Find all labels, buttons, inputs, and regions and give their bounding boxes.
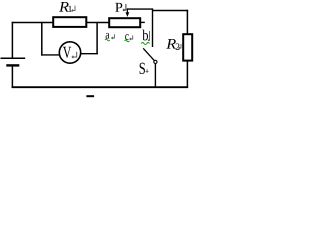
wire switch branch upper vertical bbox=[152, 9, 154, 48]
pilcrow mark after P bbox=[123, 4, 126, 11]
pilcrow mark after a bbox=[112, 34, 115, 39]
wire bottom bbox=[12, 86, 189, 88]
wire wiper-net upper right segment bbox=[152, 10, 188, 12]
resistor R2 bbox=[183, 34, 192, 60]
green squiggle under c bbox=[125, 40, 130, 42]
pilcrow mark after V bbox=[72, 52, 77, 58]
switch S hinge circle bbox=[154, 60, 157, 63]
wire left vertical upper bbox=[11, 22, 13, 58]
wire top-left horizontal bbox=[12, 22, 53, 24]
label R1 subscript 1 bbox=[68, 6, 71, 12]
wire between R1 and P bbox=[87, 22, 110, 24]
label R2 letter R bbox=[166, 39, 176, 49]
switch S blade bbox=[143, 48, 154, 60]
pilcrow mark after R2 bbox=[179, 44, 181, 49]
node label b bbox=[142, 30, 148, 41]
node label a bbox=[106, 33, 110, 39]
pilcrow mark after S bbox=[146, 69, 149, 73]
pilcrow mark after b bbox=[148, 31, 149, 41]
voltmeter V circle bbox=[59, 42, 80, 63]
wire voltmeter branch horizontal bbox=[41, 54, 60, 56]
label R1 letter R bbox=[59, 2, 69, 12]
wire right vertical upper bbox=[186, 10, 188, 34]
wire voltmeter branch right vertical bbox=[96, 22, 98, 54]
wire potentiometer wiper vertical bbox=[126, 9, 128, 14]
cropped caption fragment at bottom bbox=[86, 95, 94, 97]
pilcrow mark after R1 bbox=[72, 6, 75, 12]
green squiggle under a bbox=[105, 39, 110, 41]
wire voltmeter branch left vertical bbox=[41, 22, 43, 56]
battery positive plate bbox=[1, 57, 26, 59]
label R2 subscript 2 bbox=[176, 43, 180, 49]
potentiometer P body bbox=[109, 18, 140, 27]
battery negative plate bbox=[6, 64, 19, 66]
label S bbox=[140, 63, 145, 74]
wire voltmeter branch horizontal right bbox=[80, 53, 98, 55]
resistor R1 bbox=[53, 17, 86, 27]
potentiometer wiper arrowhead bbox=[126, 12, 130, 17]
green squiggle under b bbox=[141, 43, 149, 45]
node label c bbox=[125, 34, 129, 40]
wire wiper-net upper left segment bbox=[127, 8, 153, 10]
label P bbox=[115, 3, 122, 12]
wire switch branch lower vertical bbox=[154, 64, 156, 87]
wire left vertical lower bbox=[11, 66, 13, 88]
wire right vertical lower bbox=[186, 61, 188, 88]
wire stub right of P bbox=[141, 21, 145, 23]
pilcrow mark after c bbox=[130, 35, 133, 40]
voltmeter letter V bbox=[63, 47, 71, 58]
